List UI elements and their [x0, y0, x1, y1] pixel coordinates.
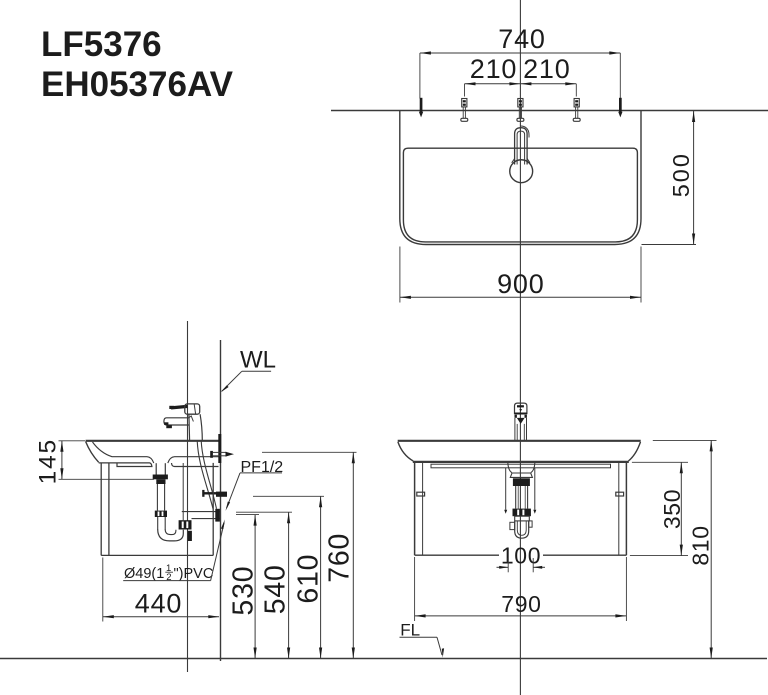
faucet-circle flare (plan): [512, 159, 530, 163]
svg-text:760: 760: [323, 533, 355, 583]
drain flange trapezoid (front): [510, 473, 532, 477]
label PF1/2: [226, 459, 284, 511]
trap bend inner (front): [517, 521, 526, 535]
faucet cartridge body: [185, 404, 200, 414]
dimension 530: [228, 515, 260, 659]
wall line (plan): [331, 110, 768, 112]
cabinet (side view): [101, 463, 213, 556]
centerline of plan and front views: [519, 0, 521, 695]
dimension 440: [103, 558, 220, 622]
svg-text:500: 500: [668, 152, 694, 197]
trap nut 1 (side): [155, 511, 167, 517]
svg-text:900: 900: [497, 269, 544, 299]
dimension 540: [236, 512, 292, 658]
right pop-up rod (front): [533, 468, 536, 514]
basin inner bowl profile (side): [93, 442, 154, 463]
supply escutcheon bar (side): [218, 434, 221, 463]
svg-text:790: 790: [501, 591, 541, 617]
basin rim top (side): [86, 440, 221, 442]
faucet spout: [164, 418, 189, 425]
drain flange band (front): [513, 478, 530, 486]
dimension 100: [497, 543, 546, 573]
label FL: [400, 621, 445, 658]
supply valve body (side): [216, 492, 227, 497]
trap nut 2 (side): [179, 520, 192, 529]
left pop-up rod (front): [504, 468, 507, 514]
drain tailpiece (front): [516, 486, 528, 509]
trap right tab (front): [529, 521, 532, 527]
basin inner bowl outline (plan): [403, 148, 637, 242]
pop-up rod (side): [182, 463, 184, 520]
svg-text:610: 610: [292, 554, 324, 604]
basin left profile (front): [398, 442, 413, 461]
trap left tab (front): [510, 522, 515, 529]
trap down pipe (side): [158, 517, 166, 530]
basin top edge (front): [398, 440, 641, 442]
svg-text:145: 145: [35, 438, 62, 484]
trap bend outer (front): [515, 521, 529, 538]
faucet body stadium (plan): [515, 128, 528, 165]
svg-text:Ø49(1: Ø49(1: [124, 566, 164, 582]
svg-text:100: 100: [501, 543, 541, 569]
svg-text:440: 440: [135, 589, 182, 619]
dimension 500: [642, 111, 697, 245]
svg-text:540: 540: [260, 564, 292, 614]
faucet inner lines (plan): [517, 131, 525, 164]
left mounting screw: [461, 99, 468, 122]
drain collar (front): [515, 516, 530, 521]
faucet (side view): [164, 404, 202, 441]
supply valve stem (side): [205, 492, 217, 494]
svg-text:210: 210: [470, 54, 517, 84]
right mounting screw: [573, 99, 580, 122]
dimension 210 left: [465, 54, 577, 96]
svg-text:740: 740: [498, 24, 545, 54]
wall line WL (side): [220, 340, 222, 661]
trap U-bend (side): [158, 530, 184, 541]
label diameter 49 PVC: [123, 519, 225, 582]
dimension 900: [400, 247, 641, 303]
svg-text:810: 810: [688, 525, 714, 565]
trap outlet pipe to wall (side): [182, 512, 220, 519]
basin underside right (side): [172, 463, 219, 467]
wall outlet flange (side): [215, 509, 220, 522]
faucet (front view): [515, 403, 527, 441]
dimension 145: [35, 438, 154, 484]
drain nut (front): [513, 509, 531, 517]
svg-text:210: 210: [523, 54, 570, 84]
drain hole circle (plan): [510, 160, 533, 183]
svg-text:FL: FL: [400, 621, 420, 640]
dimension 350: [630, 462, 688, 555]
basin underside step (side): [117, 463, 153, 467]
faucet lever: [171, 406, 188, 408]
faucet column: [188, 414, 191, 441]
drain flange (side): [153, 463, 168, 484]
svg-text:")PVC: ")PVC: [174, 566, 214, 582]
floor line: [0, 658, 767, 660]
dimension 760: [262, 452, 357, 658]
dimension 740: [419, 24, 623, 117]
basin bottom edge (front): [413, 461, 629, 463]
trap cleanout plug (side): [188, 531, 192, 541]
cabinet top groove (front): [431, 464, 611, 468]
dimension 790: [415, 557, 627, 621]
basin front outer profile (side): [86, 442, 99, 463]
svg-text:LF5376: LF5376: [41, 25, 162, 64]
basin outer shell outline (plan): [400, 111, 641, 245]
cabinet (front view): [415, 463, 627, 555]
basin right profile (front): [628, 442, 640, 461]
svg-text:2: 2: [166, 572, 171, 583]
supply hose (side): [197, 441, 213, 509]
svg-text:EH05376AV: EH05376AV: [41, 65, 234, 104]
center mounting screw: [517, 99, 524, 122]
basin inner bowl right of drain (side): [168, 457, 221, 463]
centerline of side view: [187, 321, 189, 672]
supply valve tee handle (side): [210, 451, 234, 458]
tailpiece pipe (side): [157, 484, 164, 511]
dimension 810: [653, 440, 717, 658]
svg-text:WL: WL: [240, 347, 276, 374]
label WL: [221, 347, 276, 393]
dimension 610: [253, 496, 324, 658]
basin underside front (side): [99, 463, 152, 466]
cabinet left handle: [417, 492, 425, 496]
faucet cap echo arc (plan): [520, 126, 529, 138]
cabinet right handle: [616, 492, 624, 496]
dimension 210 right: [520, 54, 576, 96]
drain recess cup (front): [508, 463, 535, 473]
